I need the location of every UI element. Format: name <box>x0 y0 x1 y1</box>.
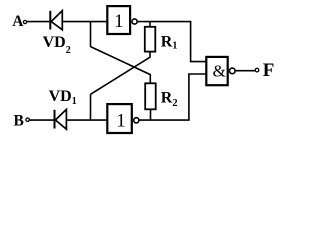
wire diagonal A rail to R2-top <box>91 47 151 75</box>
diode VD1 <box>55 109 67 129</box>
inverter bottom (logic 1 box) <box>107 104 132 133</box>
wire diagonal R1-bottom to B rail <box>91 57 151 94</box>
wire A rail <box>27 21 107 23</box>
NAND gate (& box) <box>206 57 227 85</box>
NAND gate output bubble <box>230 68 236 74</box>
svg-text:F: F <box>263 60 275 81</box>
svg-text:A: A <box>12 13 24 30</box>
svg-text:1: 1 <box>116 110 126 131</box>
wire bottom right vertical to gate input 2 <box>189 74 206 120</box>
wire junction drop from A rail <box>90 22 92 47</box>
inverter top output bubble <box>132 19 137 24</box>
resistor R1 <box>145 27 156 52</box>
wire stub R2 top <box>149 74 151 84</box>
wire stub R1 bottom <box>149 52 151 58</box>
diode VD2 <box>50 11 62 30</box>
svg-text:1: 1 <box>114 11 124 32</box>
resistor R2 <box>145 83 156 109</box>
wire junction rise from B rail <box>90 94 92 120</box>
input terminal A <box>12 13 26 30</box>
output terminal F <box>255 60 274 81</box>
inverter bottom output bubble <box>134 118 139 123</box>
svg-text:&: & <box>213 62 226 81</box>
wire B rail <box>29 119 107 121</box>
inverter top (logic 1 box) <box>107 6 130 34</box>
svg-text:B: B <box>14 112 24 129</box>
input terminal B <box>14 112 30 129</box>
wire stub to R1 top <box>149 22 151 27</box>
wire stub R2 bottom <box>150 109 152 120</box>
wire gate output to terminal F <box>235 70 255 72</box>
wire top right vertical to gate input 1 <box>191 22 206 62</box>
wire bottom inverter output to right vertical <box>139 119 189 121</box>
wire top inverter output to right vertical <box>138 21 192 23</box>
